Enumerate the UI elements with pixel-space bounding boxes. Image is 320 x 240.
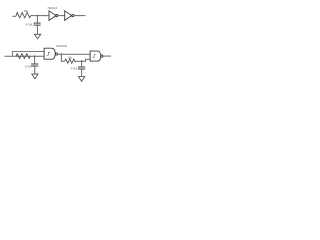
wire C2 to ground bbox=[34, 66, 36, 74]
op-amp U1B inverter bbox=[65, 11, 74, 21]
svg-text:4.7µF: 4.7µF bbox=[25, 65, 32, 68]
wire C3 to ground bbox=[81, 69, 83, 76]
ground row1 bbox=[34, 34, 40, 38]
capacitor C2 bbox=[31, 64, 38, 66]
ground row3 bbox=[78, 77, 84, 82]
capacitor C1 bbox=[34, 23, 41, 25]
wire row1 R1 to U1A bbox=[31, 15, 49, 17]
node row3 cap junction bbox=[81, 60, 83, 62]
node feedback tap bbox=[61, 53, 63, 55]
wire bypass branch bbox=[12, 51, 44, 56]
wire cap C1 stub bbox=[36, 16, 38, 23]
svg-text:74HC132: 74HC132 bbox=[56, 44, 68, 48]
wire gate A output bbox=[58, 53, 91, 55]
wire cap C2 stub bbox=[34, 56, 36, 64]
wire drop to row3 bbox=[61, 54, 64, 61]
svg-text:10k: 10k bbox=[68, 57, 73, 60]
wire row1 input bbox=[12, 15, 16, 17]
wire U1A to U1B bbox=[58, 15, 65, 17]
node row2 cap junction bbox=[34, 55, 36, 57]
svg-text:74HC14: 74HC14 bbox=[47, 6, 57, 10]
wire row2 input bbox=[5, 55, 45, 57]
gate U2A NAND bbox=[44, 48, 57, 59]
svg-text:4.7µF: 4.7µF bbox=[26, 23, 33, 26]
resistor R2 bbox=[16, 54, 30, 59]
wire gate B output bbox=[103, 55, 111, 57]
wire row3 to gate B bbox=[76, 59, 90, 61]
svg-text:4.7µF: 4.7µF bbox=[71, 68, 78, 71]
op-amp U1A inverter bbox=[49, 11, 58, 21]
ground row2 bbox=[32, 74, 38, 79]
capacitor C3 bbox=[78, 67, 85, 69]
wire C1 to ground bbox=[36, 25, 38, 34]
wire cap C3 stub bbox=[81, 61, 83, 67]
gate U2B NAND bbox=[90, 51, 103, 61]
node row1 cap junction bbox=[37, 15, 39, 17]
resistor R3 bbox=[65, 59, 76, 63]
resistor R1 bbox=[16, 12, 31, 18]
svg-text:10k: 10k bbox=[24, 9, 29, 13]
wire row1 output bbox=[74, 15, 85, 17]
